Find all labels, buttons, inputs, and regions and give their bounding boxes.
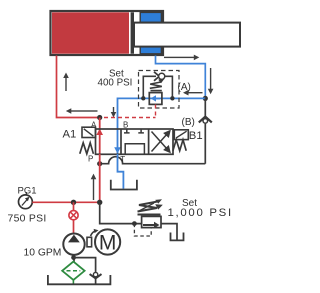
wire blue T line bbox=[118, 154, 124, 189]
cylinder C1 rod bbox=[134, 23, 240, 47]
blue flow arrowhead to T bbox=[114, 147, 121, 153]
flow arrow left bbox=[66, 108, 98, 114]
flow arrow down bbox=[208, 68, 214, 94]
bypass branch line bbox=[74, 258, 96, 284]
node loop left tap bbox=[141, 96, 145, 100]
wire red A-port line bbox=[99, 118, 101, 155]
tank relief bbox=[171, 233, 184, 241]
relief pilot dashed bbox=[134, 224, 151, 236]
reducing valve body bbox=[149, 93, 162, 105]
relief outlet to tank bbox=[161, 224, 177, 240]
solenoid A1 bbox=[82, 127, 96, 137]
tank under T bbox=[111, 180, 137, 190]
DV1 crossed arrows envelope bbox=[152, 131, 170, 152]
relief valve feed line bbox=[100, 202, 142, 223]
directional valve DV1 body bbox=[96, 129, 174, 154]
pressure gauge PG1 bbox=[19, 192, 33, 209]
svg-text:T: T bbox=[120, 155, 125, 164]
svg-text:B1: B1 bbox=[189, 130, 203, 142]
reducing valve spring bbox=[150, 82, 162, 91]
svg-text:750 PSI: 750 PSI bbox=[8, 213, 47, 224]
node suction branch bbox=[71, 255, 76, 260]
svg-text:P: P bbox=[88, 154, 93, 163]
node on red P line bbox=[97, 161, 102, 166]
spring left bbox=[80, 143, 94, 154]
svg-text:B: B bbox=[123, 120, 128, 129]
DV1 center envelope blocked ports bbox=[124, 129, 144, 154]
pump P1 bbox=[63, 234, 84, 255]
pilot line red dashed bbox=[104, 105, 156, 118]
reducing valve check bypass loop bbox=[143, 76, 172, 98]
coupling pump-motor bbox=[87, 231, 96, 247]
pump suction line bbox=[73, 255, 75, 263]
spring right bbox=[173, 140, 186, 151]
node loop right tap bbox=[170, 96, 174, 100]
node P junction bbox=[97, 200, 102, 205]
node A-line junction bbox=[97, 115, 102, 120]
svg-text:400 PSI: 400 PSI bbox=[98, 78, 133, 89]
node B corner bbox=[203, 96, 208, 101]
flow arrow right bbox=[164, 55, 199, 61]
wire cap-side red line bbox=[57, 56, 100, 118]
check valve red circle-X bbox=[69, 202, 78, 233]
motor M1 bbox=[95, 229, 120, 254]
filter F1 bbox=[62, 262, 84, 284]
svg-text:1,000 PSI: 1,000 PSI bbox=[168, 207, 233, 219]
node pump branch bbox=[71, 200, 76, 205]
relief valve RV1 body bbox=[142, 216, 161, 227]
svg-text:(B): (B) bbox=[182, 117, 195, 128]
wire rod-side blue line bbox=[156, 56, 206, 99]
check valve line from P to node B bbox=[100, 98, 206, 163]
wire red P line bbox=[99, 154, 101, 202]
solenoid B1 bbox=[174, 130, 188, 140]
relief spring bbox=[138, 202, 161, 215]
svg-text:PG1: PG1 bbox=[18, 185, 37, 196]
reducing valve adjust arrow bbox=[158, 79, 164, 84]
relief arrow inside bbox=[143, 222, 160, 228]
check valve CV-B bbox=[199, 117, 212, 124]
flow arrow down near B port bbox=[111, 107, 117, 118]
flow arrow left (A) bbox=[183, 90, 203, 96]
blue arrow through body bbox=[151, 95, 160, 101]
svg-text:A: A bbox=[91, 120, 97, 129]
wire gauge red line bbox=[32, 201, 99, 203]
svg-text:10 GPM: 10 GPM bbox=[24, 247, 62, 258]
svg-text:A1: A1 bbox=[63, 129, 77, 141]
tank main bbox=[48, 275, 111, 284]
svg-text:M: M bbox=[99, 232, 117, 255]
check valve in bypass bbox=[154, 72, 165, 81]
node pilot tap bbox=[132, 221, 137, 226]
flow arrow up bbox=[63, 73, 69, 92]
wire blue reduced line bbox=[118, 98, 206, 154]
check valve bypass bbox=[90, 272, 102, 278]
flow arrow up on P line bbox=[91, 174, 97, 200]
cylinder C1 barrel bbox=[51, 11, 164, 55]
pressure reducing valve PRV dashed enclosure bbox=[139, 71, 180, 109]
red flow arrowhead into A bbox=[96, 129, 103, 135]
